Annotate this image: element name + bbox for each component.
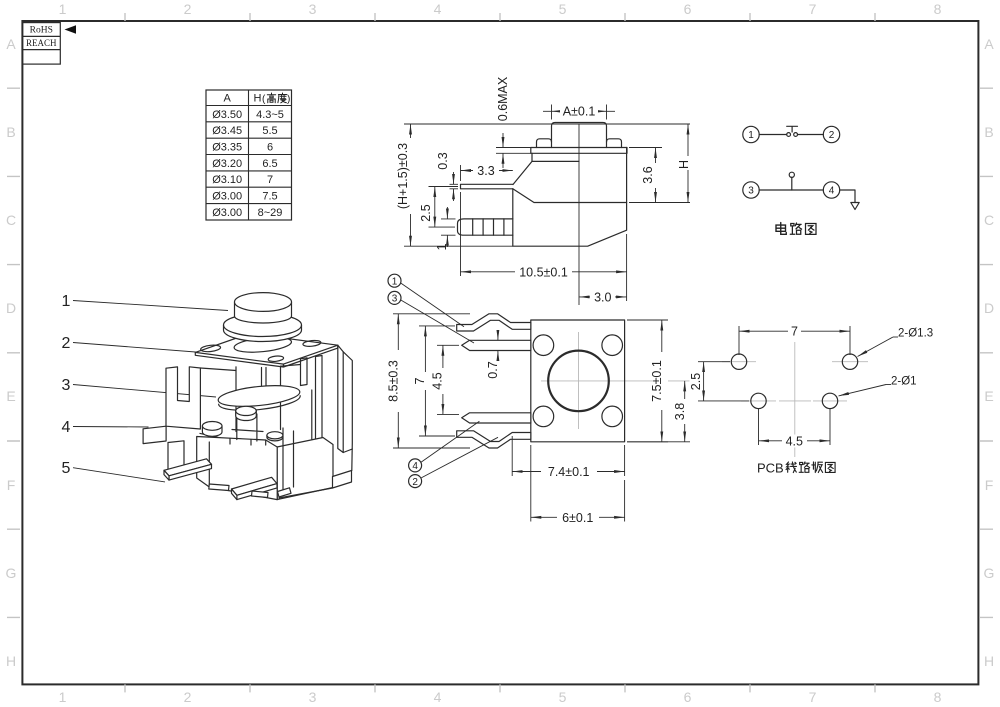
svg-text:G: G <box>6 565 17 581</box>
svg-text:3: 3 <box>748 186 754 197</box>
svg-text:D: D <box>6 300 16 316</box>
svg-text:4: 4 <box>62 419 71 436</box>
svg-text:7: 7 <box>809 1 817 17</box>
svg-text:1: 1 <box>59 1 67 17</box>
svg-text:PCB: PCB <box>757 461 784 476</box>
svg-text:4: 4 <box>434 689 442 705</box>
svg-text:Ø3.20: Ø3.20 <box>212 158 242 170</box>
svg-text:4.3~5: 4.3~5 <box>256 109 284 121</box>
svg-text:3.0: 3.0 <box>594 290 611 304</box>
svg-text:4.5: 4.5 <box>431 372 445 389</box>
svg-text:2: 2 <box>184 1 192 17</box>
svg-text:2: 2 <box>62 335 71 352</box>
svg-text:3: 3 <box>392 294 398 305</box>
svg-text:A: A <box>984 36 994 52</box>
svg-text:5: 5 <box>559 1 567 17</box>
svg-text:10.5±0.1: 10.5±0.1 <box>519 265 568 279</box>
svg-text:): ) <box>287 94 290 105</box>
svg-text:Ø3.35: Ø3.35 <box>212 142 242 154</box>
svg-text:Ø3.50: Ø3.50 <box>212 109 242 121</box>
svg-text:Ø3.00: Ø3.00 <box>212 191 242 203</box>
svg-text:8: 8 <box>934 1 942 17</box>
svg-text:2.5: 2.5 <box>689 373 703 390</box>
svg-text:1: 1 <box>62 293 71 310</box>
svg-text:4: 4 <box>434 1 442 17</box>
svg-text:3: 3 <box>309 1 317 17</box>
svg-text:6: 6 <box>267 142 273 154</box>
svg-text:3.6: 3.6 <box>641 166 655 183</box>
svg-text:B: B <box>984 124 993 140</box>
svg-text:5.5: 5.5 <box>262 125 277 137</box>
svg-text:H: H <box>984 653 994 669</box>
svg-text:7: 7 <box>267 174 273 186</box>
svg-text:4: 4 <box>829 186 835 197</box>
svg-text:1: 1 <box>59 689 67 705</box>
svg-text:H: H <box>677 160 691 169</box>
svg-text:H: H <box>6 653 16 669</box>
svg-text:Ø3.45: Ø3.45 <box>212 125 242 137</box>
svg-text:B: B <box>6 124 15 140</box>
svg-text:3.3: 3.3 <box>477 164 494 178</box>
svg-text:6: 6 <box>684 689 692 705</box>
svg-text:6: 6 <box>684 1 692 17</box>
svg-text:1: 1 <box>748 130 754 141</box>
svg-text:7.4±0.1: 7.4±0.1 <box>548 465 590 479</box>
svg-text:2-Ø1: 2-Ø1 <box>891 376 917 388</box>
svg-text:D: D <box>984 300 994 316</box>
svg-text:3: 3 <box>62 377 71 394</box>
svg-text:E: E <box>6 388 15 404</box>
svg-text:3.8: 3.8 <box>673 403 687 420</box>
svg-text:A±0.1: A±0.1 <box>563 105 596 119</box>
svg-text:1: 1 <box>435 243 449 250</box>
svg-text:7: 7 <box>791 325 798 339</box>
svg-text:E: E <box>984 388 993 404</box>
svg-text:0.3: 0.3 <box>436 152 450 169</box>
svg-text:4.5: 4.5 <box>786 434 803 448</box>
svg-text:2: 2 <box>184 689 192 705</box>
svg-text:7: 7 <box>809 689 817 705</box>
svg-text:7.5: 7.5 <box>262 191 277 203</box>
svg-text:2: 2 <box>412 477 418 488</box>
svg-text:2.5: 2.5 <box>419 204 433 221</box>
svg-text:C: C <box>6 212 16 228</box>
svg-text:0.6MAX: 0.6MAX <box>496 76 510 121</box>
svg-text:1: 1 <box>392 277 398 288</box>
svg-text:Ø3.00: Ø3.00 <box>212 207 242 219</box>
svg-text:A: A <box>224 93 232 105</box>
svg-text:REACH: REACH <box>26 38 57 48</box>
svg-text:F: F <box>7 477 16 493</box>
svg-text:8: 8 <box>934 689 942 705</box>
svg-text:A: A <box>6 36 16 52</box>
svg-text:8.5±0.3: 8.5±0.3 <box>387 360 401 402</box>
svg-text:C: C <box>984 212 994 228</box>
svg-text:6.5: 6.5 <box>262 158 277 170</box>
svg-text:RoHS: RoHS <box>30 26 53 36</box>
svg-text:7.5±0.1: 7.5±0.1 <box>650 360 664 402</box>
svg-text:(H+1.5)±0.3: (H+1.5)±0.3 <box>396 143 410 209</box>
svg-text:2: 2 <box>829 130 835 141</box>
svg-text:8~29: 8~29 <box>258 207 283 219</box>
svg-text:2-Ø1.3: 2-Ø1.3 <box>898 328 933 340</box>
svg-text:7: 7 <box>413 377 427 384</box>
svg-text:0.7: 0.7 <box>486 361 500 378</box>
svg-text:4: 4 <box>412 461 418 472</box>
svg-text:3: 3 <box>309 689 317 705</box>
svg-text:5: 5 <box>62 460 71 477</box>
svg-text:G: G <box>984 565 995 581</box>
svg-text:Ø3.10: Ø3.10 <box>212 174 242 186</box>
svg-text:5: 5 <box>559 689 567 705</box>
svg-text:H: H <box>254 93 262 105</box>
svg-text:6±0.1: 6±0.1 <box>562 511 593 525</box>
svg-text:F: F <box>985 477 994 493</box>
